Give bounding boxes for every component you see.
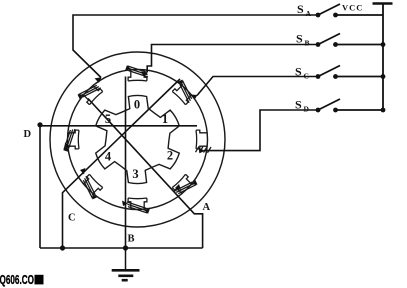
arrowhead NW winding tap — [95, 77, 102, 83]
VCC rail bar — [373, 2, 393, 5]
VCC bus wire — [382, 4, 384, 111]
junction dot bus row D — [381, 108, 386, 113]
svg-text:C: C — [68, 213, 76, 224]
wire from E winding to switch SD — [204, 110, 318, 151]
svg-text:A: A — [203, 202, 211, 213]
arrowhead E winding tap — [199, 148, 206, 154]
junction node C — [60, 245, 65, 250]
arrowhead NE winding tap — [191, 95, 198, 100]
svg-text:S: S — [295, 98, 302, 112]
wire phase C diagonal NE-SW — [63, 79, 181, 248]
junction dot bus row C — [381, 74, 386, 79]
svg-text:3: 3 — [132, 167, 138, 181]
wire phase D horizontal (W pole to E pole) — [40, 125, 197, 127]
svg-text:D: D — [24, 129, 32, 140]
svg-text:S: S — [297, 2, 304, 16]
wire node D vertical — [39, 125, 41, 248]
svg-text:4: 4 — [105, 150, 112, 164]
stator inner circle — [68, 70, 208, 210]
arrowhead SW winding tap — [80, 168, 86, 175]
svg-text:B: B — [305, 39, 310, 48]
svg-text:5: 5 — [105, 112, 111, 126]
junction node D — [37, 122, 42, 127]
stator pole S (bottom) with winding — [127, 198, 150, 214]
stator pole NE with winding — [170, 78, 197, 105]
wire from NE winding to switch SC — [197, 77, 318, 96]
svg-text:Q606.CO: Q606.CO — [0, 272, 34, 287]
stator pole W (left) with winding — [63, 129, 79, 152]
wire from NW winding to switch SA — [73, 15, 318, 78]
stator pole SW with winding — [78, 173, 105, 200]
wire phase B vertical (N pole to B node) — [125, 77, 127, 249]
arrowhead W winding tap — [65, 143, 71, 149]
winding hatches E pole — [196, 146, 212, 152]
ground symbol — [112, 248, 140, 280]
svg-text:D: D — [304, 105, 310, 114]
svg-text:0: 0 — [134, 98, 140, 112]
svg-text:VCC: VCC — [342, 3, 363, 13]
stator outer circle — [50, 52, 225, 227]
junction dot bus row B — [381, 42, 386, 47]
junction node B — [123, 245, 128, 250]
arrowhead SE winding tap — [175, 184, 181, 190]
stator pole N (top) with winding — [125, 65, 148, 81]
stator pole NW with winding — [76, 80, 103, 107]
switch SD — [316, 99, 383, 112]
rotor 6-tooth gear — [96, 95, 180, 183]
wire phase A diagonal NW-SE — [88, 99, 203, 249]
stator pole SE with winding — [171, 172, 198, 199]
switch SB — [316, 34, 383, 47]
arrowhead S winding tap — [122, 201, 128, 207]
switch SA — [316, 4, 383, 17]
svg-text:S: S — [296, 32, 303, 46]
svg-text:B: B — [128, 234, 135, 245]
wire from N winding to switch SB — [147, 45, 318, 73]
arrowhead N winding tap — [141, 72, 148, 77]
switch SC — [316, 66, 383, 79]
svg-text:A: A — [306, 9, 312, 18]
watermark Q606.COM — [0, 272, 44, 287]
svg-text:C: C — [304, 72, 309, 81]
stator pole E (right) with winding — [196, 130, 207, 149]
svg-text:S: S — [295, 65, 302, 79]
bottom common wire — [40, 247, 203, 249]
